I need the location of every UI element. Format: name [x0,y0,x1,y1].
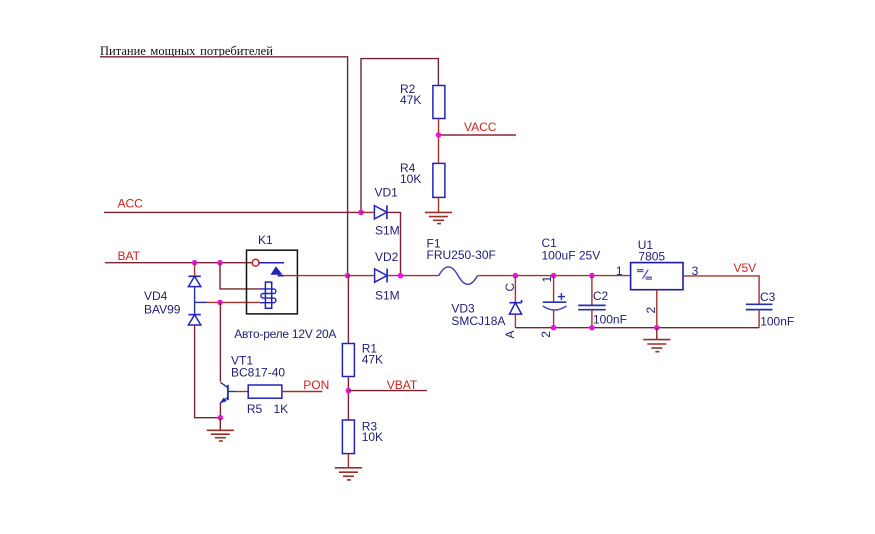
svg-text:47K: 47K [400,93,421,107]
svg-text:S1M: S1M [375,224,400,238]
wire to VD4 top [194,263,196,277]
capacitor C2 [578,276,627,328]
svg-text:Авто-реле 12V 20A: Авто-реле 12V 20A [234,327,336,341]
node VACC [436,120,516,138]
svg-text:C3: C3 [760,290,776,304]
diode VD4b [144,289,201,325]
node main j1 [345,273,351,279]
net label ACC [118,197,144,211]
wire ACC [104,211,361,213]
svg-text:10K: 10K [362,430,383,444]
net label BAT [118,249,141,263]
wire relay output [284,275,348,277]
node emitter junction [218,415,224,421]
resistor R5 [247,385,288,416]
diode VD4a [188,276,200,286]
ground R4 [425,212,452,223]
svg-text:K1: K1 [258,233,273,247]
svg-text:S1M: S1M [375,288,400,302]
svg-text:1: 1 [616,264,623,278]
wire R2 to R4 [438,119,440,164]
svg-text:BAV99: BAV99 [144,302,181,316]
svg-text:VD4: VD4 [144,289,168,303]
svg-text:A: A [503,330,517,338]
capacitor C1 [539,236,600,338]
svg-text:1K: 1K [274,402,289,416]
svg-text:VD1: VD1 [375,186,399,200]
net title: Питание мощных потребителей [100,44,273,58]
transistor VT1 [220,353,285,403]
wire F1 to C-block [478,275,631,277]
wire ACC pullup riser [361,59,438,213]
relay K1 [247,233,298,314]
wire mid branch to coil [195,301,207,303]
ground VT1 [207,430,234,441]
svg-text:2: 2 [644,307,658,314]
svg-text:Питание мощных потребителей: Питание мощных потребителей [100,44,273,58]
wire VD4 bottom to emitter node [195,325,221,418]
node coil bottom junction [217,300,223,306]
diode VD2 [375,250,400,303]
svg-text:FRU250-30F: FRU250-30F [427,248,496,262]
node ACC junction [358,210,364,216]
svg-text:V5V: V5V [734,261,757,275]
wire main riser to R1 [347,276,349,344]
svg-text:7805: 7805 [638,249,665,263]
resistor R2 [400,82,445,118]
node VBAT [346,388,352,394]
node C2 top [589,273,595,279]
svg-text:BC817-40: BC817-40 [231,366,285,380]
wire base to R5 [235,391,248,393]
wire VD1 cathode down [387,212,401,275]
wire VBAT [348,390,427,392]
svg-text:100nF: 100nF [593,313,627,327]
wire coil top branch [220,263,260,289]
wire VD2 anode [348,275,375,277]
ground R3 [335,468,362,480]
wire U1 pin2 [656,290,658,328]
wire PON stub [282,391,322,393]
node BAT j1 [192,260,198,266]
node C1 bottom [551,325,557,331]
node main j2 [398,273,404,279]
wire R1 to R3 [347,377,349,421]
ground U1 [643,328,670,352]
svg-text:C: C [503,283,517,292]
node VD3 top [513,273,519,279]
svg-text:R5: R5 [247,402,263,416]
regulator U1 [631,238,683,290]
svg-text:VACC: VACC [464,120,497,134]
svg-text:PON: PON [303,378,329,392]
fuse F1 [427,236,496,284]
resistor R1 [342,342,383,377]
node C1 top [551,273,557,279]
svg-text:C2: C2 [593,289,609,303]
wire VD1 anode [361,211,374,213]
svg-text:BAT: BAT [118,249,141,263]
svg-text:VD2: VD2 [375,250,399,264]
wire emitter to ground [219,418,221,431]
wire collector riser [219,302,221,381]
svg-text:ACC: ACC [118,197,144,211]
svg-text:VBAT: VBAT [387,378,418,392]
wire title underline [100,57,348,276]
node rail ground [654,325,660,331]
svg-text:100nF: 100nF [760,314,794,328]
svg-text:1: 1 [540,276,554,283]
wire ground rail [515,327,759,329]
wire R3 to ground [347,454,349,468]
svg-text:10K: 10K [400,172,421,186]
wire VD2 cathode [387,275,439,277]
wire VD4 mid [194,287,196,315]
resistor R4 [400,161,445,197]
svg-text:SMCJ18A: SMCJ18A [451,314,505,328]
node C2 bottom [589,325,595,331]
wire R4 to ground [438,197,440,212]
svg-text:47K: 47K [362,352,383,366]
zener VD3 [451,276,521,339]
resistor R3 [342,420,383,454]
wire emitter down [219,403,221,418]
diode VD1 [374,186,399,238]
node BAT j2 [217,260,223,266]
wire BAT [105,262,252,264]
svg-text:2: 2 [539,331,553,338]
wire U1 out [683,276,759,304]
svg-text:100uF 25V: 100uF 25V [542,249,601,263]
capacitor C3 [746,290,794,329]
